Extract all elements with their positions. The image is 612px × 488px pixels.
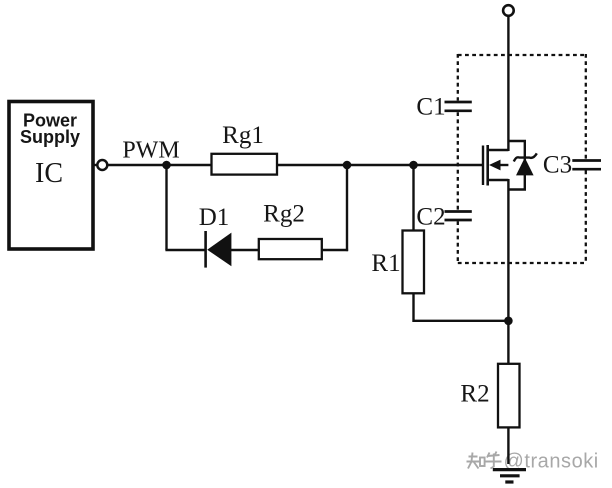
wire PWM junction down	[165, 165, 167, 250]
drain stub	[489, 149, 509, 151]
channel bar	[486, 145, 489, 186]
node gate/R1 junction	[409, 161, 418, 170]
svg-text:Rg1: Rg1	[222, 122, 264, 149]
svg-text:D1: D1	[199, 204, 230, 231]
diode D1 cathode bar	[204, 231, 207, 268]
svg-text:Rg2: Rg2	[263, 201, 305, 228]
diode D1 triangle	[207, 233, 231, 267]
capacitor C3	[572, 161, 601, 170]
watermark zhihu glyphs	[467, 452, 502, 469]
node Rg1 right junction	[343, 161, 352, 170]
wire R2 to ground	[507, 427, 509, 464]
node source/R2 junction	[504, 317, 513, 326]
resistor R1	[403, 231, 425, 294]
dashed box mosfet outline	[458, 54, 586, 264]
resistor Rg1	[212, 154, 278, 175]
wire D1 to Rg2	[230, 249, 259, 251]
svg-text:PWM: PWM	[122, 138, 179, 164]
resistor Rg2	[259, 239, 322, 259]
wire lower branch left	[165, 249, 204, 251]
wire right riser up	[346, 165, 348, 251]
wire body diode bracket	[508, 141, 524, 190]
wire R1 branch down	[412, 165, 414, 231]
wire R1 bottom to source	[414, 293, 509, 321]
terminal drain top circle	[503, 5, 514, 16]
terminal PWM output circle	[97, 160, 107, 170]
body stub	[498, 164, 508, 166]
capacitor C1	[445, 102, 472, 111]
node PWM junction	[162, 161, 171, 170]
wire main gate line	[108, 164, 483, 166]
ground	[493, 470, 526, 482]
source stub	[489, 179, 509, 181]
wire Rg2 to right riser	[322, 249, 348, 251]
svg-text:R2: R2	[460, 381, 489, 408]
diode body: triangle	[516, 158, 534, 176]
svg-text:R1: R1	[371, 250, 400, 277]
wire source vertical	[507, 179, 509, 365]
resistor R2	[498, 364, 520, 428]
wire IC output stub	[93, 164, 97, 166]
diode body: cathode squiggle	[514, 153, 537, 161]
svg-text:IC: IC	[35, 158, 63, 189]
power supply IC box	[9, 102, 93, 250]
svg-text:C1: C1	[416, 94, 445, 121]
svg-text:Supply: Supply	[20, 127, 80, 147]
svg-text:C2: C2	[416, 204, 445, 231]
transistor body arrow	[489, 160, 501, 171]
wire drain vertical	[507, 16, 509, 151]
capacitor C2	[445, 212, 472, 221]
transistor Q1 mosfet	[483, 145, 508, 186]
svg-text:C3: C3	[543, 152, 572, 179]
gate bar	[482, 146, 484, 186]
